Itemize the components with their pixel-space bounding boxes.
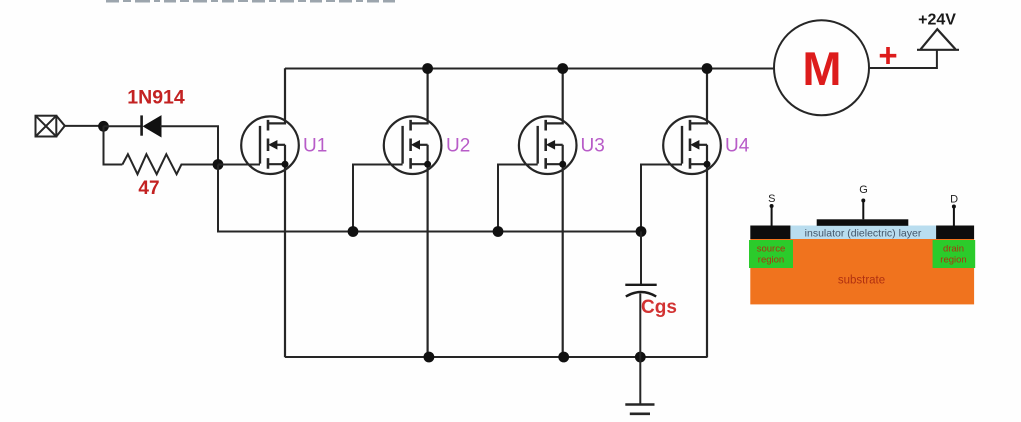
svg-text:drain: drain — [943, 244, 964, 255]
junction dot source bus / Cgs / ground — [635, 352, 646, 363]
wire: source bus (bottom) — [285, 356, 707, 358]
wire: diode cathode to node B (right, then down) — [160, 126, 218, 164]
ground symbol — [625, 405, 654, 414]
motor M1 — [774, 20, 869, 115]
junction dot drain bus / U2 — [422, 63, 433, 74]
transistor U3 — [519, 68, 577, 357]
cropped text remnant (dashed gray marks along top edge) — [106, 0, 395, 3]
svg-text:U3: U3 — [581, 136, 605, 157]
wire: U2 gate stub — [353, 165, 403, 232]
svg-text:U4: U4 — [725, 136, 750, 157]
svg-text:M: M — [802, 42, 841, 95]
svg-text:S: S — [768, 193, 775, 205]
power symbol +24V (open triangle) — [917, 29, 959, 50]
junction dot drain bus / U4 — [702, 63, 713, 74]
junction dot source bus / U3 — [558, 352, 569, 363]
svg-text:47: 47 — [138, 178, 159, 199]
transistor U2 — [384, 68, 442, 357]
svg-text:U1: U1 — [303, 136, 327, 157]
substrate (orange) — [750, 239, 974, 305]
node B junction dot — [213, 159, 224, 170]
wire: motor to +24V stem — [869, 50, 937, 68]
drain contact (black) — [936, 226, 974, 240]
transistor U4 — [663, 68, 721, 357]
svg-text:+: + — [878, 37, 897, 74]
source contact (black) — [750, 226, 790, 240]
wire: input terminal to node A — [65, 125, 104, 127]
wire: capacitor to source bus — [639, 294, 641, 358]
junction dot gate bus / U4 / Cgs — [636, 226, 647, 237]
source region (green) — [749, 240, 793, 268]
diode D1 1N914 (cathode bar left, triangle pointing left) — [142, 115, 161, 136]
input terminal J1 (crossed-box connector) — [36, 116, 65, 137]
svg-text:region: region — [758, 255, 784, 266]
node A junction dot — [98, 121, 109, 132]
svg-text:Cgs: Cgs — [641, 297, 677, 318]
wire: node A to diode anode — [104, 125, 141, 127]
junction dot gate bus / U3 — [493, 226, 504, 237]
junction dot source bus / U2 — [424, 352, 435, 363]
svg-text:region: region — [940, 255, 966, 266]
wire: node B to U1 gate — [218, 164, 260, 166]
transistor U1 — [241, 68, 299, 357]
wire: U4 gate stub — [641, 165, 682, 232]
svg-text:1N914: 1N914 — [127, 87, 185, 109]
svg-text:insulator (dielectric) layer: insulator (dielectric) layer — [805, 228, 922, 240]
pin S lead — [771, 206, 773, 226]
svg-text:+24V: +24V — [918, 12, 956, 29]
capacitor Cgs (flat top plate, curved bottom plate) — [625, 285, 656, 297]
wire: U3 gate stub — [498, 165, 538, 232]
gate electrode (black bar) — [817, 219, 909, 226]
junction dot drain bus / U3 — [557, 63, 568, 74]
svg-text:substrate: substrate — [838, 275, 885, 287]
pin D lead — [953, 207, 955, 226]
svg-text:G: G — [859, 184, 868, 196]
wire: gate bus junction down to capacitor — [640, 232, 642, 285]
wire: drain bus (top) to motor — [285, 68, 774, 70]
wire: gate bus (node B down and across to U4 gate column) — [218, 165, 641, 232]
svg-text:source: source — [757, 244, 786, 255]
svg-text:U2: U2 — [446, 136, 470, 157]
insulator (dielectric) layer (light blue) — [790, 226, 936, 240]
wire: ground stem — [639, 357, 641, 404]
wire: node A down to resistor — [104, 126, 123, 164]
junction dot gate bus / U2 — [348, 226, 359, 237]
drain region (green) — [933, 240, 976, 268]
svg-text:D: D — [950, 194, 958, 206]
pin G lead — [862, 201, 864, 220]
resistor R1 47 (zigzag) — [122, 154, 218, 174]
